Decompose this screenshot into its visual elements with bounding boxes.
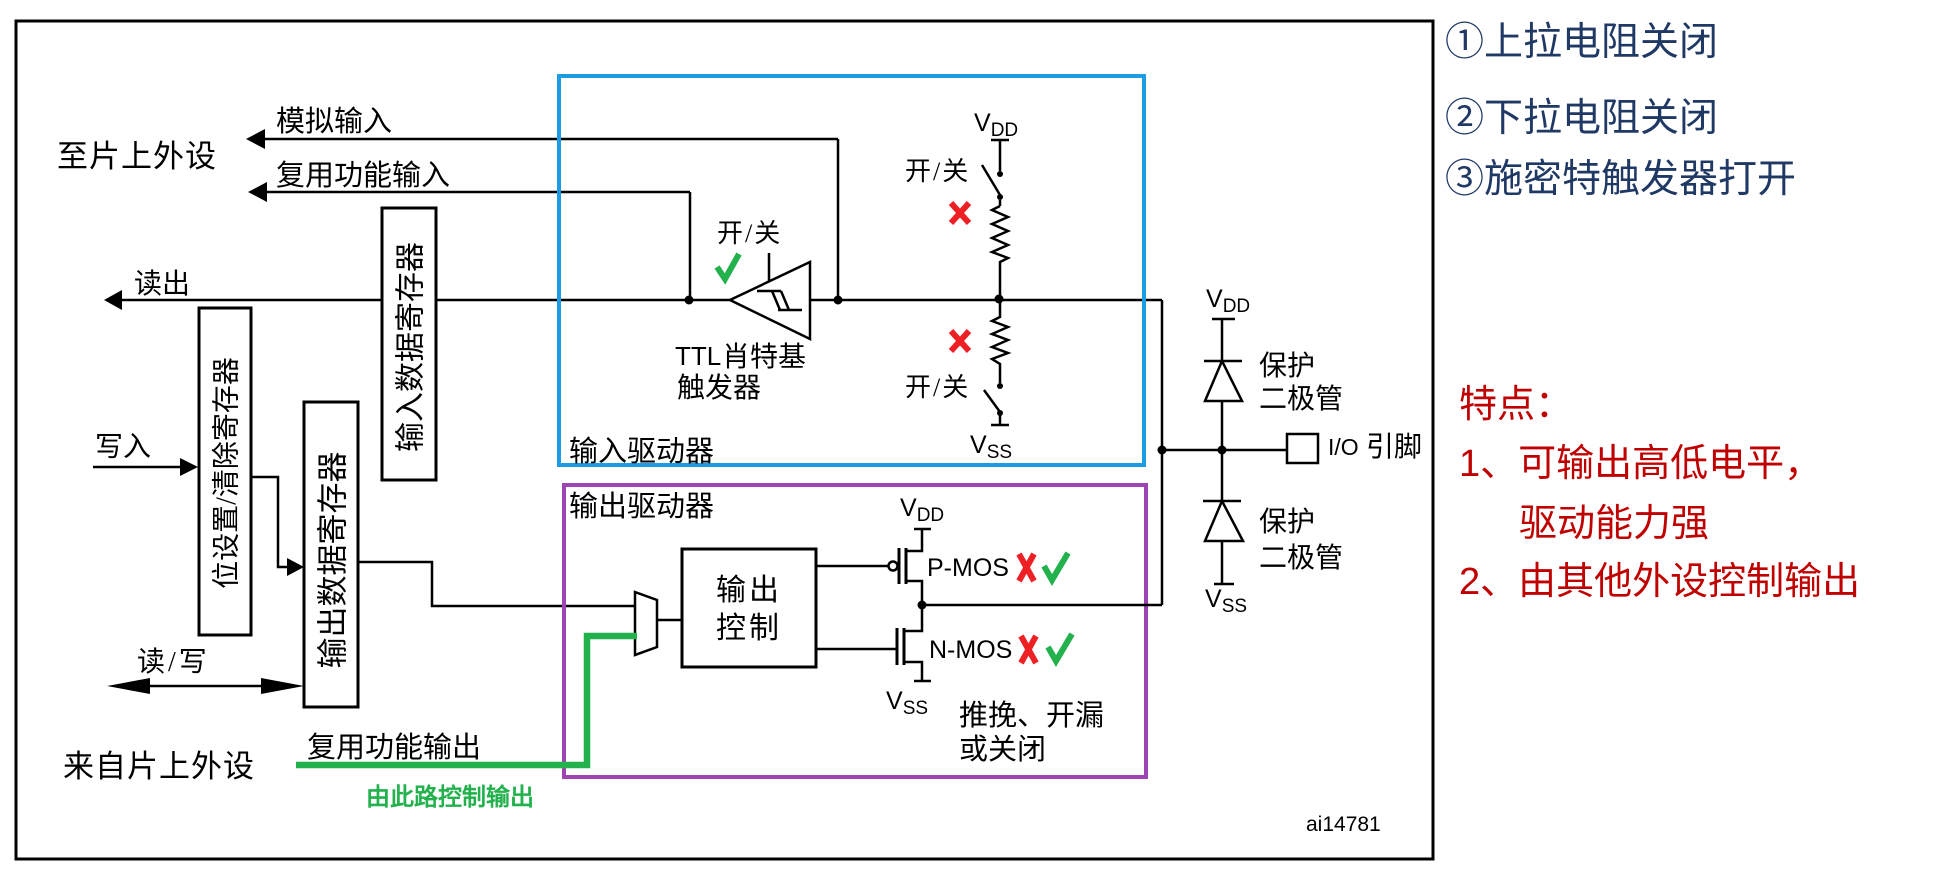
wire I/O vertical trunk — [1161, 300, 1164, 605]
svg-text:2、由其他外设控制输出: 2、由其他外设控制输出 — [1459, 561, 1860, 603]
X pmos — [1019, 554, 1034, 581]
svg-text:模拟输入: 模拟输入 — [276, 105, 392, 138]
svg-text:1、可输出高低电平，: 1、可输出高低电平， — [1459, 443, 1822, 485]
transistor P-MOS — [816, 529, 931, 605]
svg-text:TTL: TTL — [675, 341, 721, 371]
label 保护 二极管 upper — [1259, 350, 1343, 415]
check nmos — [1048, 634, 1072, 661]
label 推挽、开漏 或关闭 — [959, 699, 1104, 766]
I/O pin square — [1287, 434, 1318, 463]
svg-text:I/O: I/O — [1328, 434, 1359, 460]
wire green AF output — [296, 636, 637, 765]
svg-text:特点：: 特点： — [1459, 384, 1573, 426]
svg-text:②下拉电阻关闭: ②下拉电阻关闭 — [1445, 97, 1718, 140]
wire drain to I/O trunk — [922, 604, 1162, 607]
input driver box (blue) — [559, 76, 1144, 465]
svg-text:开/关: 开/关 — [905, 157, 970, 186]
node MOS drain junction — [918, 601, 927, 610]
wire output data register to mux — [358, 562, 635, 606]
mux trapezoid — [635, 592, 682, 655]
node trunk junction — [1158, 446, 1167, 455]
svg-text:二极管: 二极管 — [1259, 383, 1343, 415]
svg-text:读/写: 读/写 — [137, 646, 210, 678]
wire 模拟输入 (analog input line) — [246, 129, 838, 300]
svg-text:开/关: 开/关 — [905, 373, 970, 402]
node pull junction — [995, 295, 1004, 304]
pull-down switch 开/关 — [984, 383, 1003, 425]
svg-text:读出: 读出 — [134, 268, 190, 300]
svg-text:引脚: 引脚 — [1366, 431, 1422, 463]
resistor pull-up — [992, 206, 1008, 299]
node junction analog input — [834, 296, 843, 305]
resistor pull-down — [992, 299, 1008, 383]
label I/O 引脚 — [1328, 431, 1422, 463]
output control box — [682, 549, 816, 667]
svg-text:触发器: 触发器 — [677, 372, 761, 404]
svg-text:保护: 保护 — [1259, 350, 1315, 382]
pull-up branch: VDD symbol — [991, 140, 1009, 171]
svg-text:复用功能输出: 复用功能输出 — [307, 731, 481, 764]
protection diode D2 (lower) — [1203, 450, 1243, 584]
svg-text:输入数据寄存器: 输入数据寄存器 — [395, 242, 428, 452]
svg-text:由此路控制输出: 由此路控制输出 — [366, 783, 534, 811]
svg-text:写入: 写入 — [95, 432, 151, 463]
wire 写入 arrow — [93, 458, 198, 476]
protection diode D1 (upper) — [1204, 319, 1242, 450]
svg-text:来自片上外设: 来自片上外设 — [63, 749, 255, 784]
outer frame — [16, 21, 1433, 859]
svg-text:P-MOS: P-MOS — [927, 554, 1009, 582]
svg-text:①上拉电阻关闭: ①上拉电阻关闭 — [1445, 21, 1718, 64]
svg-text:输出驱动器: 输出驱动器 — [569, 490, 714, 523]
wire 复用功能输入 (alternate function input line) — [248, 182, 690, 300]
svg-text:肖特基: 肖特基 — [722, 341, 806, 373]
svg-text:复用功能输入: 复用功能输入 — [276, 159, 450, 192]
pull-up switch 开/关 — [982, 165, 1003, 206]
pull-down VSS symbol — [991, 424, 1009, 427]
svg-text:输出: 输出 — [716, 574, 782, 607]
svg-text:保护: 保护 — [1259, 506, 1315, 538]
register box 位设置/清除寄存器 — [199, 308, 251, 635]
wire I/O horizontal — [1162, 449, 1287, 452]
svg-text:N-MOS: N-MOS — [929, 636, 1012, 664]
wire 读/写 double arrow — [107, 678, 304, 694]
svg-text:输出数据寄存器: 输出数据寄存器 — [316, 452, 351, 669]
svg-text:开/关: 开/关 — [717, 219, 782, 248]
svg-text:二极管: 二极管 — [1259, 542, 1343, 574]
svg-text:位设置/清除寄存器: 位设置/清除寄存器 — [211, 357, 243, 589]
node diode junction — [1218, 446, 1227, 455]
check pmos — [1044, 553, 1068, 580]
register box 输入数据寄存器 — [382, 208, 436, 480]
X nmos — [1021, 636, 1036, 663]
X pull-down off — [951, 331, 969, 351]
register box 输出数据寄存器 — [304, 402, 358, 707]
check schmitt on — [717, 254, 739, 279]
svg-text:驱动能力强: 驱动能力强 — [1519, 503, 1709, 545]
svg-text:或关闭: 或关闭 — [959, 733, 1046, 766]
svg-text:ai14781: ai14781 — [1306, 813, 1381, 836]
node junction AF input — [685, 296, 694, 305]
wire bit-set connector to output data register — [251, 477, 304, 576]
schmitt trigger U1 — [730, 253, 810, 339]
svg-text:控制: 控制 — [716, 612, 782, 645]
svg-text:③施密特触发器打开: ③施密特触发器打开 — [1445, 158, 1796, 201]
svg-text:至片上外设: 至片上外设 — [57, 139, 217, 174]
output driver box (purple) — [564, 485, 1146, 777]
label 保护 二极管 lower — [1259, 506, 1343, 574]
X pull-up off — [951, 203, 969, 223]
wire 读出 main input line — [104, 290, 1162, 310]
svg-text:输入驱动器: 输入驱动器 — [569, 435, 714, 468]
transistor N-MOS — [816, 605, 931, 681]
svg-text:推挽、开漏: 推挽、开漏 — [959, 699, 1104, 732]
label TTL肖特基 触发器 — [675, 341, 806, 404]
